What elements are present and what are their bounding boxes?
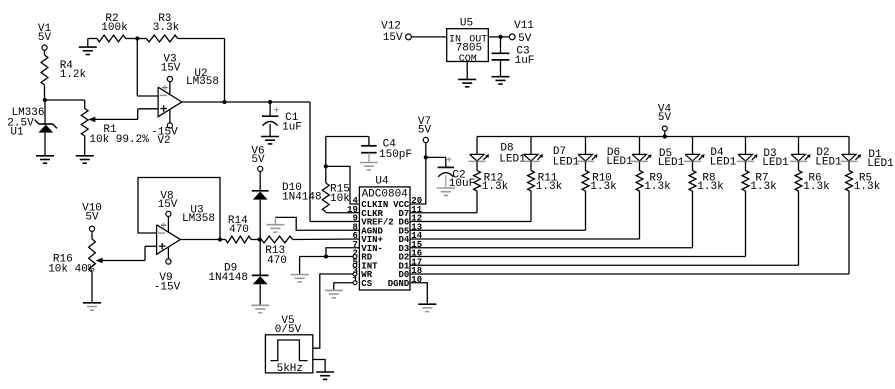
- wire: [745, 137, 747, 155]
- resistor R7 1.3k: [742, 171, 777, 194]
- svg-text:1.3k: 1.3k: [750, 181, 777, 193]
- ground: [266, 217, 284, 232]
- svg-text:100k: 100k: [101, 22, 128, 34]
- wire: [410, 191, 640, 239]
- wire: [326, 248, 359, 257]
- voltage reference U1 LM336 2.5V: [7, 100, 57, 147]
- terminal V1 5V: [38, 23, 52, 50]
- ground: [83, 292, 101, 310]
- ground: [492, 76, 510, 84]
- ground: [316, 372, 334, 380]
- LED D8: [469, 143, 527, 166]
- wire: [334, 283, 353, 290]
- wire: [488, 36, 509, 38]
- ground: [291, 274, 309, 282]
- node C1 junction: [268, 100, 272, 104]
- wire: [182, 101, 310, 103]
- wire: [313, 274, 353, 348]
- svg-text:5V: 5V: [418, 125, 432, 137]
- svg-text:15V: 15V: [383, 32, 403, 44]
- wire: [300, 257, 353, 275]
- svg-text:LED1: LED1: [762, 157, 789, 169]
- node B: [135, 36, 139, 40]
- svg-text:10k 99.2%: 10k 99.2%: [89, 134, 149, 146]
- terminal V2 -15V: [151, 123, 178, 147]
- resistor R15 10k: [322, 166, 359, 212]
- svg-text:1.2k: 1.2k: [60, 69, 87, 81]
- svg-text:LED1: LED1: [499, 153, 526, 165]
- wire: [91, 231, 93, 239]
- svg-text:DGND: DGND: [388, 279, 410, 289]
- resistor R6 1.3k: [795, 171, 830, 194]
- resistor R3 3.3k: [137, 13, 224, 42]
- terminal V9 -15V: [154, 259, 181, 293]
- svg-text:1.3k: 1.3k: [590, 181, 617, 193]
- svg-text:15V: 15V: [158, 199, 178, 211]
- terminal V11 5V: [509, 20, 534, 45]
- node U3 output: [218, 237, 222, 241]
- wire: [410, 191, 746, 257]
- ground: [418, 304, 436, 312]
- svg-text:U5: U5: [460, 18, 473, 30]
- terminal V7 5V: [418, 116, 432, 143]
- wire: [410, 191, 849, 274]
- svg-text:LM358: LM358: [186, 76, 219, 88]
- LED D4: [684, 147, 737, 169]
- svg-text:7805: 7805: [456, 43, 482, 55]
- svg-text:1.3k: 1.3k: [854, 181, 881, 193]
- svg-text:+: +: [446, 156, 452, 167]
- wire: [639, 137, 641, 155]
- svg-text:LM358: LM358: [182, 213, 215, 225]
- diode D9 1N4148: [208, 240, 268, 306]
- capacitor C3 1uF: [492, 37, 535, 76]
- svg-text:1.3k: 1.3k: [482, 181, 509, 193]
- diode D10 1N4148: [252, 172, 322, 240]
- ground: [251, 305, 269, 313]
- resistor R8 1.3k: [689, 171, 724, 194]
- wire: [692, 161, 694, 170]
- svg-text:5V: 5V: [518, 33, 532, 45]
- terminal V10 5V: [82, 203, 102, 232]
- svg-text:LED1: LED1: [553, 157, 580, 169]
- node A: [43, 98, 47, 102]
- ground: [437, 188, 455, 195]
- capacitor C1 1uF: [262, 102, 302, 137]
- ground: [79, 39, 97, 55]
- resistor R12 1.3k: [474, 171, 509, 194]
- terminal V3 15V: [161, 54, 181, 82]
- svg-text:15V: 15V: [161, 62, 181, 74]
- wire: [530, 137, 532, 155]
- ground: [36, 147, 54, 163]
- svg-text:1N4148: 1N4148: [208, 272, 248, 284]
- svg-text:10k 40%: 10k 40%: [48, 264, 95, 276]
- wire: [310, 102, 359, 222]
- regulator U5 7805: [447, 18, 489, 65]
- svg-text:CS: CS: [361, 279, 372, 289]
- wire: [313, 360, 325, 372]
- svg-text:5V: 5V: [85, 212, 99, 224]
- svg-text:V12: V12: [381, 21, 401, 33]
- svg-text:1uF: 1uF: [515, 55, 535, 67]
- LED D7: [523, 146, 580, 169]
- svg-text:1.3k: 1.3k: [697, 181, 724, 193]
- wire: [326, 137, 369, 167]
- capacitor C4 150pF: [361, 137, 412, 162]
- svg-text:1uF: 1uF: [282, 122, 302, 134]
- terminal V8 15V: [158, 190, 178, 216]
- svg-text:1.3k: 1.3k: [803, 181, 830, 193]
- LED D3: [737, 148, 789, 169]
- wire: [476, 161, 478, 170]
- resistor R5 1.3k: [846, 171, 881, 194]
- wire: [138, 178, 220, 240]
- op-amp U3 LM358: [157, 205, 215, 259]
- wire: [466, 62, 468, 80]
- LED D6: [577, 147, 633, 168]
- node VIN-/RD junction: [324, 254, 328, 258]
- wire: [639, 161, 641, 170]
- wire: [410, 191, 531, 222]
- LED D2: [790, 147, 842, 169]
- wire: [138, 109, 158, 120]
- capacitor C2 10uF: [426, 156, 475, 190]
- wire: [326, 166, 360, 204]
- svg-text:LED1: LED1: [710, 157, 737, 169]
- svg-text:V11: V11: [514, 20, 534, 32]
- potentiometer R1 10k 99.2%: [81, 109, 149, 155]
- svg-text:5kHz: 5kHz: [277, 363, 303, 375]
- node clock junction: [324, 164, 328, 168]
- LED D5: [631, 148, 685, 169]
- resistor R2 100k: [88, 13, 138, 42]
- svg-text:5V: 5V: [38, 32, 52, 44]
- wire: [44, 50, 46, 55]
- wire: [145, 246, 157, 260]
- wire: [137, 39, 158, 97]
- svg-text:+: +: [273, 106, 279, 117]
- wire: [476, 137, 478, 155]
- svg-text:LED1: LED1: [658, 157, 685, 169]
- wire LED anode bus: [477, 136, 849, 138]
- wire: [180, 239, 225, 241]
- svg-text:U4: U4: [375, 176, 389, 188]
- wire: [45, 100, 85, 109]
- wire: [848, 137, 850, 155]
- resistor R11 1.3k: [528, 171, 563, 194]
- wire: [798, 137, 800, 155]
- svg-text:5V: 5V: [251, 154, 265, 166]
- svg-text:150pF: 150pF: [379, 149, 412, 161]
- wire: [410, 283, 427, 304]
- wire: [44, 85, 46, 100]
- wire: [410, 191, 693, 248]
- svg-text:ADC0804: ADC0804: [362, 189, 409, 201]
- wire: [410, 191, 799, 265]
- node V4/bus: [663, 134, 667, 138]
- wire: [410, 143, 426, 204]
- terminal V4 5V: [658, 104, 672, 137]
- IC U4 ADC0804: [347, 176, 423, 291]
- ground: [76, 155, 94, 163]
- terminal V12 15V: [381, 21, 411, 44]
- svg-text:0/5V: 0/5V: [275, 324, 302, 336]
- svg-text:-15V: -15V: [154, 281, 181, 293]
- op-amp U2 LM358: [158, 68, 219, 123]
- resistor R9 1.3k: [636, 171, 671, 194]
- svg-text:U1: U1: [10, 127, 24, 139]
- svg-text:10k: 10k: [330, 193, 350, 205]
- ground: [360, 153, 378, 170]
- ground: [458, 79, 476, 87]
- ground: [261, 137, 279, 144]
- svg-text:1N4148: 1N4148: [282, 192, 322, 204]
- wire: [585, 137, 587, 155]
- resistor R13 470: [261, 236, 359, 267]
- svg-text:LED1: LED1: [815, 157, 842, 169]
- wire: [848, 161, 850, 170]
- wire: [410, 191, 586, 230]
- svg-text:3.3k: 3.3k: [153, 22, 180, 34]
- wire: [275, 217, 359, 230]
- wire: [585, 161, 587, 170]
- wire: [411, 36, 446, 38]
- svg-text:470: 470: [229, 224, 249, 236]
- wire: [692, 137, 694, 155]
- node clamp junction: [258, 237, 262, 241]
- resistor R14 470: [226, 215, 260, 243]
- terminal V6 5V: [251, 146, 265, 172]
- wire: [224, 39, 226, 103]
- wire: [410, 191, 477, 213]
- node V7/C2 junction: [424, 155, 428, 159]
- potentiometer R16 10k 40%: [48, 239, 145, 292]
- resistor R4 1.2k: [41, 55, 86, 85]
- wire: [798, 161, 800, 170]
- node C3 junction: [498, 35, 502, 39]
- svg-text:1.3k: 1.3k: [644, 181, 671, 193]
- source V5 0/5V 5kHz: [265, 315, 312, 375]
- ground: [325, 290, 343, 298]
- svg-text:V2: V2: [157, 135, 170, 147]
- resistor R10 1.3k: [582, 171, 617, 194]
- svg-text:470: 470: [267, 255, 287, 267]
- wire: [530, 161, 532, 170]
- wire: [745, 161, 747, 170]
- svg-text:5V: 5V: [658, 112, 672, 124]
- node U2 output: [222, 100, 226, 104]
- svg-text:LED1: LED1: [867, 158, 894, 170]
- svg-text:LED1: LED1: [606, 156, 633, 168]
- LED D1: [841, 149, 895, 170]
- svg-text:1.3k: 1.3k: [536, 181, 563, 193]
